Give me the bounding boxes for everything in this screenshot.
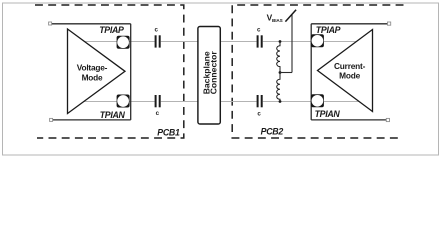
- svg-text:c: c: [154, 26, 158, 33]
- terminal: PCB1 top input: [49, 22, 52, 25]
- wire: PCB2 test-point bus (vertical): [310, 24, 312, 120]
- wire: PCB2 top terminal to TPIAP bus: [311, 23, 387, 25]
- junction: L1 to top signal wire: [279, 40, 282, 43]
- PCB1 dashed boundary: [35, 5, 184, 138]
- capacitor C1 (PCB1 top): [156, 35, 160, 47]
- inductor L1 (top bias choke): [277, 42, 280, 73]
- wire: top signal (PCB1 amp to capacitor C1): [85, 41, 154, 43]
- svg-text:TPIAN: TPIAN: [100, 110, 126, 120]
- wire: top signal (backplane connector to C3): [220, 41, 256, 43]
- op-amp U1 (Voltage-Mode driver): [68, 29, 126, 114]
- wire: PCB2 bottom terminal to TPIAN bus: [311, 119, 386, 121]
- terminal: PCB1 bottom input: [50, 118, 53, 121]
- svg-text:TPIAP: TPIAP: [316, 25, 341, 35]
- svg-text:c: c: [156, 110, 160, 117]
- test point TPIAP (PCB1): [117, 36, 130, 49]
- test point TPIAN (PCB2): [311, 94, 324, 107]
- svg-text:c: c: [257, 111, 261, 118]
- inductor L2 (bottom bias choke): [277, 73, 280, 102]
- wire: PCB1 bottom terminal to TPIAN bus: [53, 119, 131, 121]
- svg-text:c: c: [257, 26, 261, 33]
- capacitor C4 (PCB2 bottom): [258, 95, 262, 107]
- wire: VBIAS riser (vertical): [291, 14, 293, 73]
- wire: bottom signal (C4 to PCB2 amp): [263, 101, 360, 103]
- backplane connector J1: [198, 27, 220, 125]
- svg-text:Mode: Mode: [339, 71, 360, 81]
- svg-text:TPIAN: TPIAN: [315, 109, 341, 119]
- wire: PCB1 top terminal to TPIAP bus: [52, 23, 131, 25]
- svg-text:TPIAP: TPIAP: [99, 25, 124, 35]
- PCB2 dashed boundary: [232, 5, 403, 138]
- wire: top signal (C1 to backplane connector): [161, 41, 198, 43]
- svg-text:PCB1: PCB1: [157, 127, 180, 137]
- svg-text:Mode: Mode: [82, 72, 103, 82]
- wire: top signal (C3 to PCB2 amp): [263, 41, 356, 43]
- svg-text:BIAS: BIAS: [272, 18, 283, 23]
- junction: L2 to bottom signal wire: [279, 100, 282, 103]
- test point TPIAN (PCB1): [117, 95, 130, 108]
- capacitor C2 (PCB1 bottom): [156, 95, 160, 107]
- wire: center tap to VBIAS riser: [280, 72, 292, 74]
- svg-text:PCB2: PCB2: [261, 127, 284, 137]
- terminal: PCB2 bottom output: [386, 118, 389, 121]
- wire: bottom signal (PCB1 amp to capacitor C2): [83, 101, 154, 103]
- wire: PCB1 test-point bus (vertical): [130, 24, 132, 120]
- test point TPIAP (PCB2): [311, 34, 324, 47]
- VBIAS off-page slash: [285, 10, 296, 22]
- svg-text:Voltage-: Voltage-: [77, 62, 108, 72]
- svg-text:Connector: Connector: [209, 51, 219, 95]
- wire: bottom signal (backplane connector to C4): [220, 101, 256, 103]
- capacitor C3 (PCB2 top): [258, 35, 262, 47]
- terminal: PCB2 top output: [388, 22, 391, 25]
- op-amp U2 (Current-Mode driver): [318, 30, 373, 112]
- wire: bottom signal (C2 to backplane connector): [161, 101, 198, 103]
- junction: center tap between L1 and L2: [279, 71, 282, 74]
